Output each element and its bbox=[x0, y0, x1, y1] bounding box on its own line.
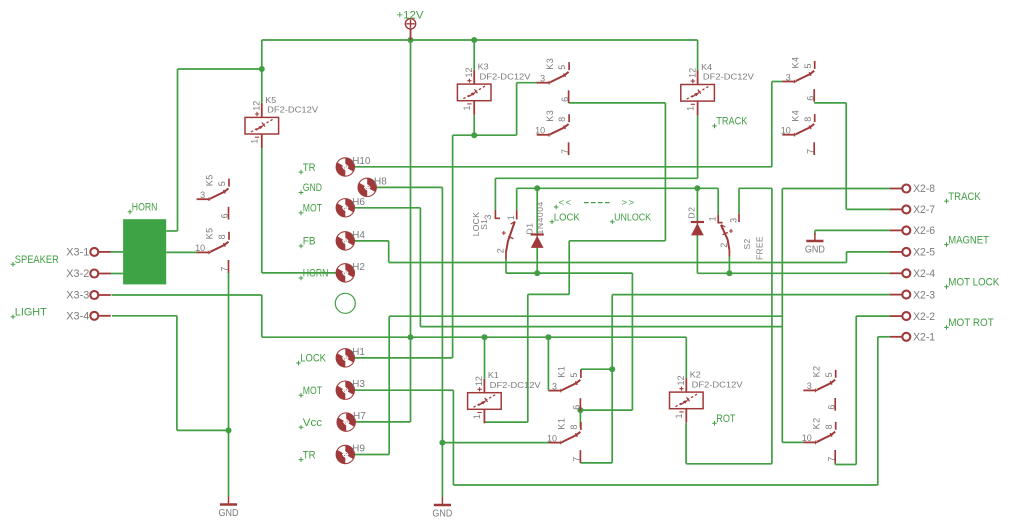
wire to K3 contact 3 bbox=[516, 83, 518, 136]
wire H8 GND row bbox=[367, 186, 442, 188]
svg-text:DF2-DC12V: DF2-DC12V bbox=[267, 106, 319, 115]
svg-text:5: 5 bbox=[824, 372, 834, 377]
wire K1.10 row bbox=[442, 442, 548, 444]
wire K1 coil feed bbox=[527, 294, 529, 422]
wire K3.1 junction row bbox=[453, 134, 517, 136]
svg-text:H4: H4 bbox=[352, 230, 365, 241]
label LIGHT bbox=[11, 315, 16, 320]
svg-text:K3: K3 bbox=[478, 63, 489, 72]
svg-text:>>: >> bbox=[622, 198, 636, 209]
wire X3-4 light bbox=[112, 315, 177, 317]
svg-text:DF2-DC12V: DF2-DC12V bbox=[490, 381, 542, 390]
label Vcc bbox=[299, 425, 304, 430]
junction bbox=[471, 37, 477, 43]
svg-text:DF2-DC12V: DF2-DC12V bbox=[703, 73, 755, 82]
svg-text:8: 8 bbox=[557, 117, 567, 122]
label FB bbox=[299, 244, 304, 249]
wire H3 row bbox=[345, 389, 453, 391]
junction bbox=[226, 427, 232, 433]
svg-text:TRACK: TRACK bbox=[716, 116, 748, 128]
svg-text:8: 8 bbox=[803, 117, 813, 122]
connector pin X2-4 bbox=[902, 269, 910, 277]
svg-text:5: 5 bbox=[569, 373, 579, 378]
wire K3 coil top bbox=[473, 40, 475, 70]
svg-text:LOCK: LOCK bbox=[300, 353, 326, 365]
svg-text:K3: K3 bbox=[545, 110, 555, 122]
svg-text:MOT LOCK: MOT LOCK bbox=[948, 277, 1000, 289]
lamp H2 bbox=[336, 264, 354, 282]
svg-text:H3: H3 bbox=[352, 379, 365, 390]
svg-text:MAGNET: MAGNET bbox=[948, 234, 989, 246]
svg-text:1: 1 bbox=[708, 216, 718, 221]
svg-text:6: 6 bbox=[805, 96, 815, 101]
lamp H7 bbox=[337, 413, 355, 431]
svg-text:X3-2: X3-2 bbox=[66, 268, 89, 280]
contact K5 pin 10 bbox=[197, 251, 209, 253]
label ROT bbox=[712, 421, 717, 426]
wire GND column bbox=[441, 187, 443, 497]
wire bus left drop bbox=[261, 40, 263, 69]
diode D1 bbox=[531, 233, 544, 235]
contact K2 pin 10 bbox=[803, 441, 815, 443]
svg-text:K4: K4 bbox=[790, 56, 800, 68]
wire K2 coil top bbox=[685, 337, 687, 378]
svg-text:X2-8: X2-8 bbox=[913, 183, 935, 195]
lamp H1 bbox=[336, 349, 354, 367]
wire X3-2 bbox=[111, 273, 124, 275]
svg-text:K4: K4 bbox=[790, 110, 800, 122]
junction bbox=[694, 185, 700, 191]
svg-text:K4: K4 bbox=[701, 63, 712, 72]
svg-text:GND: GND bbox=[219, 508, 239, 519]
svg-text:1: 1 bbox=[250, 139, 260, 144]
svg-text:12: 12 bbox=[474, 376, 484, 386]
label TR2 bbox=[299, 457, 304, 462]
+12V supply symbol bbox=[405, 19, 415, 29]
svg-text:10: 10 bbox=[195, 243, 205, 253]
wire K1.5 link bbox=[581, 368, 612, 370]
svg-text:12: 12 bbox=[687, 68, 697, 78]
svg-text:H9: H9 bbox=[352, 444, 365, 455]
connector pin X2-1 bbox=[902, 333, 910, 341]
svg-text:X3-1: X3-1 bbox=[66, 247, 89, 259]
svg-text:D1: D1 bbox=[525, 222, 535, 234]
relay coil K3 bbox=[457, 84, 491, 101]
wire +12V bus bbox=[262, 39, 698, 41]
label UNLOCK arrow bbox=[610, 220, 615, 225]
wire HORN to K5.10 bbox=[166, 251, 197, 253]
svg-text:12: 12 bbox=[464, 67, 474, 77]
svg-text:Vcc: Vcc bbox=[303, 417, 323, 429]
svg-text:H10: H10 bbox=[352, 156, 371, 167]
wire X2-4 row bbox=[697, 272, 890, 274]
svg-text:K5: K5 bbox=[265, 96, 276, 105]
svg-text:TR: TR bbox=[303, 449, 316, 461]
svg-text:3: 3 bbox=[807, 381, 812, 391]
wire K4.6 to X2-7 bbox=[845, 103, 847, 209]
svg-text:K2: K2 bbox=[811, 365, 821, 377]
svg-text:GND: GND bbox=[432, 509, 452, 520]
junction bbox=[408, 334, 414, 340]
wire K1 coil top bbox=[484, 337, 486, 379]
svg-text:K2: K2 bbox=[811, 417, 821, 429]
connector pin X3-3 bbox=[90, 291, 98, 299]
wire K4 coil top bbox=[697, 40, 699, 71]
label TRACK right bbox=[944, 199, 949, 204]
svg-text:12: 12 bbox=[676, 375, 686, 385]
connector pin X3-2 bbox=[90, 270, 98, 278]
connector pin X2-6 bbox=[902, 226, 910, 234]
label MOT ROT bbox=[944, 325, 949, 330]
contact K1 pin 10 bbox=[549, 442, 561, 444]
svg-text:MOT: MOT bbox=[303, 385, 322, 397]
svg-text:MOT: MOT bbox=[303, 203, 322, 215]
svg-text:H6: H6 bbox=[352, 197, 365, 208]
connector pin X2-7 bbox=[902, 205, 910, 213]
svg-text:H8: H8 bbox=[374, 176, 387, 187]
svg-text:7: 7 bbox=[220, 267, 230, 272]
wire X2-2 to K2.7 bbox=[856, 315, 890, 317]
junction bbox=[439, 440, 445, 446]
ground bbox=[814, 233, 816, 241]
ground bbox=[441, 497, 443, 505]
arrows lock-unlock bbox=[554, 205, 558, 209]
svg-text:1: 1 bbox=[472, 414, 482, 419]
wire H6 MOT row bbox=[345, 207, 420, 209]
wire TR2 H9 row bbox=[389, 315, 782, 317]
contact K1 pin 3 bbox=[549, 390, 561, 392]
connector pin X2-3 bbox=[902, 291, 910, 299]
label LOCK arrow bbox=[550, 220, 555, 225]
contact K3 pin 3 bbox=[537, 82, 549, 84]
wire k3.6 column south bbox=[664, 103, 666, 241]
svg-text:8: 8 bbox=[217, 234, 227, 239]
wire K1.6-8 link bbox=[580, 409, 632, 411]
svg-text:K1: K1 bbox=[557, 366, 567, 378]
svg-text:S2: S2 bbox=[742, 239, 752, 250]
svg-text:1: 1 bbox=[462, 105, 472, 110]
wire X2-6 to GND bbox=[815, 229, 890, 231]
svg-text:K5: K5 bbox=[205, 227, 215, 239]
svg-text:1: 1 bbox=[685, 106, 695, 111]
svg-text:X2-3: X2-3 bbox=[913, 289, 935, 301]
wire D1 vertical bbox=[536, 188, 538, 234]
wire H4 FB row bbox=[345, 240, 388, 242]
svg-text:3: 3 bbox=[540, 74, 545, 84]
svg-text:12: 12 bbox=[252, 101, 262, 111]
wire H7 Vcc row bbox=[346, 421, 410, 423]
label SPEAKER bbox=[11, 262, 16, 267]
svg-text:H1: H1 bbox=[352, 347, 365, 358]
junction bbox=[577, 407, 583, 413]
svg-text:5: 5 bbox=[803, 63, 813, 68]
label MOT bbox=[299, 211, 304, 216]
svg-text:HORN: HORN bbox=[132, 202, 158, 214]
contact K3 pin 10 bbox=[537, 134, 549, 136]
svg-text:1N4004: 1N4004 bbox=[535, 201, 545, 234]
svg-text:H7: H7 bbox=[353, 411, 366, 422]
wire D1 top row bbox=[517, 187, 719, 189]
label GND net bbox=[299, 190, 304, 195]
label MOT LOCK bbox=[944, 285, 949, 290]
label MAGNET bbox=[944, 242, 949, 247]
wire TR row H10 bbox=[345, 166, 772, 168]
wire +12V row bbox=[262, 336, 687, 338]
svg-text:SPEAKER: SPEAKER bbox=[15, 254, 59, 266]
wire X2-8 row bbox=[782, 188, 890, 190]
svg-text:2: 2 bbox=[496, 248, 506, 253]
svg-text:6: 6 bbox=[220, 213, 230, 218]
wire bottom long row to X2-1 bbox=[453, 484, 877, 486]
wire lock actuator row bbox=[506, 272, 632, 274]
wire S2.3 up bbox=[738, 188, 740, 214]
svg-text:K1: K1 bbox=[488, 371, 499, 380]
label MOT2 bbox=[299, 393, 304, 398]
connector pin X3-4 bbox=[90, 312, 98, 320]
junction bbox=[408, 37, 414, 43]
svg-text:GND: GND bbox=[805, 245, 825, 256]
svg-text:10: 10 bbox=[781, 126, 791, 136]
svg-text:K1: K1 bbox=[557, 418, 567, 430]
svg-text:FREE: FREE bbox=[755, 236, 765, 260]
switch S1 LOCK bbox=[495, 210, 500, 218]
label LOCK net bbox=[296, 361, 301, 366]
svg-text:3: 3 bbox=[729, 218, 739, 223]
relay coil K5 bbox=[245, 117, 279, 134]
wire K5.7 gnd column bbox=[228, 272, 230, 497]
wire LOCK column to H1 bbox=[452, 135, 454, 358]
svg-text:1: 1 bbox=[506, 215, 516, 220]
wire K1.7 link bbox=[579, 461, 581, 464]
svg-text:7: 7 bbox=[572, 457, 582, 462]
svg-text:5: 5 bbox=[557, 65, 567, 70]
svg-text:K3: K3 bbox=[545, 58, 555, 70]
svg-text:S1: S1 bbox=[479, 219, 489, 230]
svg-text:LOCK: LOCK bbox=[554, 213, 580, 224]
junction bbox=[534, 185, 540, 191]
junction bbox=[259, 66, 265, 72]
wire X2-3 row bbox=[611, 295, 613, 370]
svg-text:3: 3 bbox=[552, 381, 557, 391]
svg-text:10: 10 bbox=[535, 126, 545, 136]
spare circle bbox=[335, 293, 355, 313]
svg-text:TR: TR bbox=[303, 162, 316, 174]
switch S2 FREE bbox=[718, 215, 722, 223]
svg-text:MOT ROT: MOT ROT bbox=[948, 317, 994, 329]
wire +12V to K1.3 bbox=[547, 337, 549, 390]
wire FB long row to X2-5 bbox=[389, 262, 847, 264]
svg-text:TRACK: TRACK bbox=[948, 191, 981, 203]
wire K5 coil bottom to H2 bbox=[261, 148, 263, 273]
lamp H6 bbox=[336, 199, 354, 217]
svg-text:X2-2: X2-2 bbox=[913, 311, 935, 323]
svg-text:7: 7 bbox=[560, 149, 570, 154]
wire K4 coil bottom bbox=[697, 115, 699, 179]
wire S1.3 K4.1 row bbox=[495, 177, 697, 179]
svg-text:K2: K2 bbox=[690, 371, 701, 380]
wire S2.1 drop bbox=[717, 188, 719, 215]
svg-text:+12V: +12V bbox=[397, 10, 425, 22]
wire X3-3 supply bbox=[261, 295, 263, 337]
wire S2.2 drop bbox=[728, 256, 730, 273]
svg-text:<<: << bbox=[559, 198, 573, 209]
lamp H9 bbox=[336, 445, 354, 463]
junction bbox=[471, 132, 477, 138]
relay coil K4 bbox=[681, 85, 715, 102]
junction bbox=[545, 334, 551, 340]
svg-text:7: 7 bbox=[826, 457, 836, 462]
wire TR to K4.3 bbox=[771, 82, 773, 167]
svg-text:3: 3 bbox=[200, 190, 205, 200]
svg-text:5: 5 bbox=[217, 181, 227, 186]
svg-text:FB: FB bbox=[303, 236, 316, 248]
wire X3-1 bbox=[111, 251, 124, 253]
connector pin X2-8 bbox=[902, 185, 910, 193]
svg-text:X2-5: X2-5 bbox=[913, 247, 935, 259]
contact K2 pin 3 bbox=[803, 389, 815, 391]
svg-text:GND: GND bbox=[303, 182, 322, 194]
wire lock actuator column bbox=[631, 273, 633, 410]
ground bbox=[228, 497, 230, 505]
svg-text:X2-1: X2-1 bbox=[913, 332, 935, 344]
wire K5 coil top bbox=[261, 69, 263, 104]
connector pin X3-1 bbox=[90, 248, 98, 256]
svg-text:7: 7 bbox=[805, 149, 815, 154]
svg-text:2: 2 bbox=[719, 243, 729, 248]
wire MOT long row bbox=[420, 326, 782, 328]
lamp H8 bbox=[358, 178, 376, 196]
lamp H10 bbox=[336, 158, 354, 176]
lamp H3 bbox=[336, 381, 354, 399]
svg-text:6: 6 bbox=[572, 405, 582, 410]
svg-text:H2: H2 bbox=[352, 262, 365, 273]
svg-text:3: 3 bbox=[786, 72, 791, 82]
label TR bbox=[299, 170, 304, 175]
diode D2 bbox=[691, 221, 704, 223]
svg-text:10: 10 bbox=[547, 433, 557, 443]
svg-text:1: 1 bbox=[674, 413, 684, 418]
junction bbox=[726, 270, 732, 276]
svg-text:HORN: HORN bbox=[303, 268, 329, 280]
junction bbox=[482, 334, 488, 340]
lamp H4 bbox=[336, 232, 354, 250]
svg-text:DF2-DC12V: DF2-DC12V bbox=[480, 72, 532, 81]
svg-text:X3-3: X3-3 bbox=[66, 290, 89, 302]
contact K4 pin 3 bbox=[782, 81, 794, 83]
svg-text:6: 6 bbox=[826, 405, 836, 410]
junction bbox=[534, 270, 540, 276]
svg-text:X2-7: X2-7 bbox=[913, 204, 935, 216]
wire to HORN supply bbox=[178, 68, 262, 70]
svg-text:DF2-DC12V: DF2-DC12V bbox=[692, 380, 744, 389]
svg-text:ROT: ROT bbox=[716, 413, 735, 425]
svg-text:K5: K5 bbox=[205, 174, 215, 186]
wire K3 coil bottom bbox=[473, 115, 475, 136]
svg-text:8: 8 bbox=[824, 424, 834, 429]
connector pin X2-2 bbox=[902, 312, 910, 320]
connector pin X2-5 bbox=[902, 248, 910, 256]
relay coil K2 bbox=[670, 392, 704, 409]
speaker HORN bbox=[123, 219, 166, 284]
svg-text:UNLOCK: UNLOCK bbox=[614, 213, 651, 224]
svg-text:6: 6 bbox=[560, 97, 570, 102]
svg-text:X2-4: X2-4 bbox=[913, 268, 935, 280]
relay coil K1 bbox=[468, 393, 502, 410]
svg-text:LIGHT: LIGHT bbox=[15, 307, 47, 319]
wire S2.3 to K2.1 column bbox=[771, 188, 773, 464]
svg-text:8: 8 bbox=[569, 425, 579, 430]
wire S1.1 up bbox=[516, 188, 518, 210]
svg-text:D2: D2 bbox=[687, 206, 697, 218]
svg-text:10: 10 bbox=[802, 433, 812, 443]
svg-text:X2-6: X2-6 bbox=[913, 225, 935, 237]
wire k3.6 west jog bbox=[569, 240, 665, 242]
wire D2 vertical bbox=[696, 188, 698, 222]
wire K3 contact 6 east bbox=[569, 102, 666, 104]
label HORN net bbox=[299, 276, 304, 281]
label TRACK K4 bbox=[712, 124, 717, 129]
wire X2-8 K2.10 column bbox=[781, 189, 783, 443]
svg-text:X3-4: X3-4 bbox=[66, 311, 89, 323]
wire +12V column bbox=[410, 40, 412, 422]
junction bbox=[609, 366, 615, 372]
contact K5 pin 3 bbox=[197, 198, 209, 200]
contact K4 pin 10 bbox=[782, 134, 794, 136]
wire S1.2 drop bbox=[505, 260, 507, 274]
